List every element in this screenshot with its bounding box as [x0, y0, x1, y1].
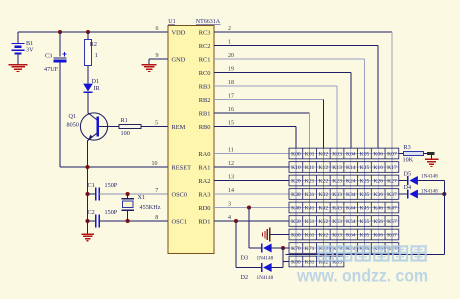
svg-text:9: 9 — [156, 53, 159, 59]
svg-text:K51: K51 — [305, 219, 315, 225]
svg-text:20: 20 — [228, 53, 234, 59]
svg-text:K07: K07 — [387, 152, 397, 158]
svg-text:3V: 3V — [26, 47, 34, 54]
svg-text:D4: D4 — [404, 184, 412, 191]
svg-text:3: 3 — [228, 202, 231, 208]
svg-text:C1: C1 — [88, 182, 95, 189]
svg-text:17: 17 — [228, 94, 234, 100]
svg-text:K43: K43 — [332, 206, 342, 212]
svg-text:K60: K60 — [291, 233, 301, 239]
svg-text:11: 11 — [228, 148, 234, 154]
svg-text:K63: K63 — [332, 233, 342, 239]
svg-text:K35: K35 — [360, 192, 370, 198]
svg-text:K40: K40 — [291, 206, 301, 212]
svg-text:K52: K52 — [319, 219, 329, 225]
svg-text:K64: K64 — [346, 233, 356, 239]
svg-text:Q1: Q1 — [69, 113, 77, 120]
svg-text:K50: K50 — [291, 219, 301, 225]
svg-text:13: 13 — [228, 175, 234, 181]
svg-text:R2: R2 — [90, 41, 97, 48]
svg-text:K23: K23 — [332, 179, 342, 185]
svg-text:K53: K53 — [332, 219, 342, 225]
svg-text:K05: K05 — [360, 152, 370, 158]
svg-text:16: 16 — [228, 107, 234, 113]
svg-text:K67: K67 — [387, 233, 397, 239]
svg-text:K42: K42 — [319, 206, 329, 212]
svg-text:K26: K26 — [373, 179, 383, 185]
svg-text:K32: K32 — [319, 192, 329, 198]
svg-text:10K: 10K — [403, 157, 414, 164]
svg-text:1N4148: 1N4148 — [257, 275, 274, 281]
svg-text:K45: K45 — [360, 206, 370, 212]
svg-text:K30: K30 — [291, 192, 301, 198]
svg-text:K34: K34 — [346, 192, 356, 198]
svg-text:1: 1 — [228, 40, 231, 46]
svg-text:19: 19 — [228, 67, 234, 73]
svg-text:K25: K25 — [360, 179, 370, 185]
svg-text:D1: D1 — [92, 78, 100, 85]
svg-text:RA0: RA0 — [198, 151, 210, 158]
svg-text:VDD: VDD — [172, 29, 186, 36]
svg-text:4: 4 — [228, 215, 231, 221]
svg-text:K17: K17 — [387, 165, 397, 171]
svg-text:47UF: 47UF — [44, 66, 59, 73]
svg-text:RA2: RA2 — [198, 178, 210, 185]
svg-text:K65: K65 — [360, 233, 370, 239]
svg-text:K66: K66 — [373, 233, 383, 239]
svg-text:K16: K16 — [373, 165, 383, 171]
svg-text:K44: K44 — [346, 206, 356, 212]
svg-text:K13: K13 — [332, 165, 342, 171]
svg-text:www. ondzz. com: www. ondzz. com — [296, 266, 428, 286]
svg-text:8050: 8050 — [67, 121, 79, 128]
svg-text:OSC0: OSC0 — [172, 191, 188, 198]
svg-text:K46: K46 — [373, 206, 383, 212]
svg-text:K24: K24 — [346, 179, 356, 185]
svg-text:K14: K14 — [346, 165, 356, 171]
svg-text:2: 2 — [228, 26, 231, 32]
svg-text:K61: K61 — [305, 233, 315, 239]
svg-text:1N4148: 1N4148 — [421, 174, 438, 180]
svg-text:5: 5 — [155, 120, 158, 126]
svg-text:RD0: RD0 — [198, 205, 210, 212]
svg-text:C2: C2 — [88, 209, 95, 216]
svg-text:K55: K55 — [360, 219, 370, 225]
svg-text:K54: K54 — [346, 219, 356, 225]
svg-text:K47: K47 — [387, 206, 397, 212]
svg-text:GND: GND — [172, 56, 186, 63]
svg-text:R3: R3 — [404, 144, 411, 151]
svg-text:K00: K00 — [291, 152, 301, 158]
svg-text:K10: K10 — [291, 165, 301, 171]
svg-text:150P: 150P — [105, 209, 118, 216]
svg-text:455KHz: 455KHz — [140, 204, 161, 211]
svg-text:RA3: RA3 — [198, 191, 210, 198]
svg-text:1N4148: 1N4148 — [421, 188, 438, 194]
svg-text:K56: K56 — [373, 219, 383, 225]
svg-text:150P: 150P — [105, 182, 118, 189]
svg-text:K03: K03 — [332, 152, 342, 158]
svg-text:100: 100 — [121, 130, 130, 137]
svg-text:K70: K70 — [291, 246, 301, 252]
svg-text:14: 14 — [228, 188, 234, 194]
svg-text:K22: K22 — [319, 179, 329, 185]
svg-text:RC3: RC3 — [199, 29, 211, 36]
svg-text:K33: K33 — [332, 192, 342, 198]
svg-text:K62: K62 — [319, 233, 329, 239]
svg-text:REM: REM — [172, 124, 186, 131]
svg-text:RD1: RD1 — [198, 218, 210, 225]
svg-text:K12: K12 — [319, 165, 329, 171]
svg-text:6: 6 — [156, 26, 159, 32]
svg-text:K06: K06 — [373, 152, 383, 158]
svg-text:18: 18 — [228, 80, 234, 86]
svg-text:8: 8 — [155, 215, 158, 221]
svg-text:RB2: RB2 — [199, 97, 211, 104]
svg-text:C3: C3 — [45, 53, 52, 60]
svg-text:1N4148: 1N4148 — [257, 256, 274, 262]
svg-text:K71: K71 — [305, 246, 315, 252]
svg-text:D5: D5 — [404, 171, 412, 178]
svg-text:K20: K20 — [291, 179, 301, 185]
svg-text:K21: K21 — [305, 179, 315, 185]
svg-text:RC1: RC1 — [199, 56, 211, 63]
svg-text:15: 15 — [228, 121, 234, 127]
svg-text:R1: R1 — [121, 117, 128, 124]
svg-text:RB0: RB0 — [199, 124, 211, 131]
svg-text:D3: D3 — [241, 255, 249, 262]
svg-text:X1: X1 — [138, 194, 146, 201]
svg-text:D2: D2 — [241, 274, 249, 281]
svg-text:RC0: RC0 — [199, 70, 211, 77]
svg-text:RC2: RC2 — [199, 43, 211, 50]
svg-text:K31: K31 — [305, 192, 315, 198]
svg-text:K11: K11 — [305, 165, 315, 171]
svg-text:IR: IR — [94, 85, 101, 92]
svg-text:RESET: RESET — [172, 164, 192, 171]
svg-text:7: 7 — [155, 188, 158, 194]
svg-text:K36: K36 — [373, 192, 383, 198]
svg-text:K37: K37 — [387, 192, 397, 198]
svg-text:12: 12 — [228, 161, 234, 167]
svg-text:RA1: RA1 — [198, 164, 210, 171]
svg-text:K04: K04 — [346, 152, 356, 158]
svg-text:K02: K02 — [319, 152, 329, 158]
svg-text:10: 10 — [152, 161, 158, 167]
svg-text:RB1: RB1 — [199, 110, 211, 117]
svg-text:K57: K57 — [387, 219, 397, 225]
svg-text:OSC1: OSC1 — [172, 218, 188, 225]
svg-text:K27: K27 — [387, 179, 397, 185]
svg-text:1: 1 — [95, 52, 98, 59]
svg-text:K15: K15 — [360, 165, 370, 171]
svg-text:RB3: RB3 — [199, 83, 211, 90]
svg-text:K41: K41 — [305, 206, 315, 212]
svg-text:K01: K01 — [305, 152, 315, 158]
